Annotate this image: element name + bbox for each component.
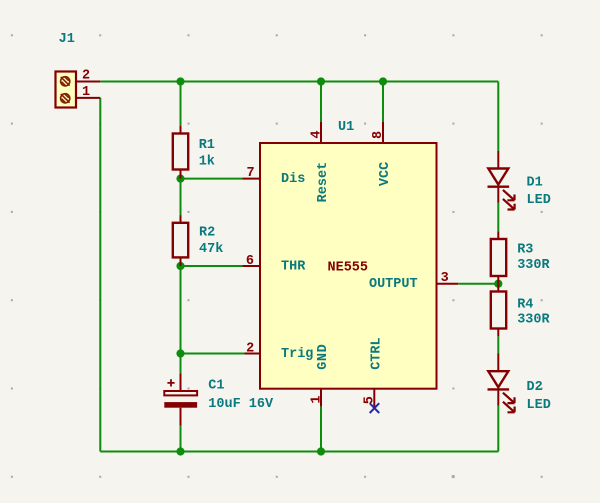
U1 pin 1 stub [320,389,322,407]
svg-text:8: 8 [371,131,386,139]
C1 top pin [180,373,182,391]
svg-text:6: 6 [246,254,254,269]
wire C1 to bottom rail [180,426,182,452]
R3 top pin [497,231,499,239]
svg-text:1: 1 [309,395,324,403]
connector J1 body [56,72,77,108]
U1 pin 4 stub [320,122,322,143]
node output R3R4 [494,280,502,288]
node top-R1 [176,77,184,85]
wire D1 to R3 [497,203,499,232]
U1 pin 8 stub [382,122,384,143]
svg-text:4: 4 [310,130,325,138]
D1 top pin [497,151,499,169]
svg-text:R1: R1 [199,138,215,153]
R2 top pin [180,215,182,223]
svg-text:5: 5 [363,396,378,404]
wire top rail [100,81,498,83]
U1 pin 2 stub [245,353,261,355]
svg-text:Reset: Reset [316,162,331,203]
svg-text:D1: D1 [527,176,543,191]
wire top to pin4 [320,82,322,123]
C1 bottom pin [180,408,182,426]
wire left vertical from J1 pin1 [99,98,101,452]
LED D2 [488,371,515,412]
node Trig [176,349,184,357]
wire R4 to D2 [497,336,499,353]
resistor R4 [491,292,506,329]
wire R1 to R2 [180,179,182,216]
svg-text:LED: LED [527,193,551,208]
LED D1 [488,169,515,210]
capacitor C1 [164,379,197,407]
svg-text:LED: LED [527,398,551,413]
svg-text:47k: 47k [199,242,223,257]
D2 top pin [497,354,499,372]
wire R2 to Trig node [180,266,182,354]
svg-text:1k: 1k [199,155,215,170]
node R2-pin6 [176,262,184,270]
svg-text:3: 3 [441,271,449,286]
svg-text:330R: 330R [517,258,550,273]
U1 pin 7 stub [243,178,261,180]
R4 bottom pin [497,329,499,337]
R4 top pin [497,284,499,292]
svg-text:Dis: Dis [281,172,305,187]
svg-text:2: 2 [246,342,254,357]
U1 pin 5 stub [373,389,375,409]
R3 bottom pin [497,276,499,284]
resistor R3 [491,239,506,276]
J1 pin 1 stub [76,97,100,99]
svg-text:330R: 330R [517,313,550,328]
svg-text:CTRL: CTRL [369,337,384,369]
resistor R1 [173,134,188,170]
svg-text:R4: R4 [517,298,533,313]
R1 top pin [180,126,182,134]
wire pin3 to R3R4 node [458,283,498,285]
svg-text:1: 1 [82,85,90,100]
node C1-rail [176,447,184,455]
svg-text:NE555: NE555 [328,260,369,275]
no-connect X on pin 5 [370,403,380,413]
node pin1-rail [317,447,325,455]
svg-text:VCC: VCC [378,162,393,186]
node top-pin8 [379,77,387,85]
wires green [100,82,498,452]
svg-text:Trig: Trig [281,347,313,362]
svg-text:7: 7 [246,166,254,181]
svg-text:J1: J1 [59,32,75,47]
D1 bottom pin [497,188,499,203]
wire top to pin8 [382,82,384,123]
wire R1 to pin7 [181,178,243,180]
IC U1 NE555 timer body [260,143,437,389]
svg-text:OUTPUT: OUTPUT [369,277,418,292]
svg-text:D2: D2 [527,380,543,395]
R1 bottom pin [180,170,182,179]
resistor R2 [173,223,188,258]
svg-text:10uF 16V: 10uF 16V [208,397,274,412]
svg-text:R2: R2 [199,226,215,241]
D2 bottom pin [497,390,499,406]
svg-text:2: 2 [82,69,90,84]
wire Trig node to C1 [180,354,182,374]
wire D2 to bottom rail [497,406,499,452]
svg-text:C1: C1 [208,378,224,393]
U1 pin 3 stub [437,283,459,285]
wire bottom rail [100,451,498,453]
wire right vertical top to D1 [497,82,499,152]
svg-text:THR: THR [281,260,306,275]
R2 bottom pin [180,257,182,266]
wire Trig node to pin2 [181,353,245,355]
node top-pin4 [317,77,325,85]
U1 pin 6 stub [243,265,261,267]
wire top to R1 [180,82,182,127]
svg-text:R3: R3 [517,243,533,258]
pin stubs dark red [76,82,498,426]
svg-text:GND: GND [316,344,331,370]
J1 pin 2 stub [76,81,100,83]
wire pin1 to bottom rail [320,406,322,451]
svg-text:U1: U1 [338,120,354,135]
J1 screw terminal pin 2 [61,77,70,86]
node R1-pin7 [176,175,184,183]
J1 screw terminal pin 1 [61,94,70,103]
wire R2 to pin6 [181,265,243,267]
